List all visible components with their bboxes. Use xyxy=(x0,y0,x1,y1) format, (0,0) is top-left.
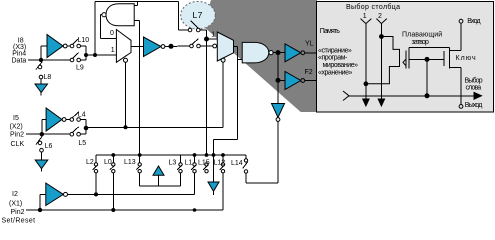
svg-text:Выход: Выход xyxy=(465,102,482,109)
svg-text:Вход: Вход xyxy=(467,18,480,25)
svg-text:L13: L13 xyxy=(124,159,136,166)
svg-text:I2: I2 xyxy=(12,191,18,198)
svg-text:затвор: затвор xyxy=(412,39,429,46)
svg-text:L9: L9 xyxy=(76,65,84,72)
svg-text:YL: YL xyxy=(305,41,314,48)
svg-text:Pin2: Pin2 xyxy=(11,209,25,216)
svg-text:CLK: CLK xyxy=(11,141,25,148)
svg-text:I5: I5 xyxy=(13,115,19,122)
svg-text:F2: F2 xyxy=(305,69,313,76)
svg-text:L12: L12 xyxy=(214,160,226,167)
svg-text:Память: Память xyxy=(320,28,340,35)
svg-text:L5: L5 xyxy=(78,140,86,147)
svg-text:0: 0 xyxy=(110,30,114,37)
svg-text:L14: L14 xyxy=(231,160,243,167)
svg-text:Выбор: Выбор xyxy=(465,76,483,84)
svg-text:(X2): (X2) xyxy=(10,123,23,130)
svg-text:Data: Data xyxy=(12,58,27,65)
svg-text:(X1): (X1) xyxy=(9,201,22,208)
svg-text:L1: L1 xyxy=(185,160,193,167)
svg-text:«програм-: «програм- xyxy=(318,55,348,62)
svg-text:L6: L6 xyxy=(45,143,53,150)
svg-text:Pin4: Pin4 xyxy=(12,51,26,58)
svg-text:L7: L7 xyxy=(193,10,203,20)
svg-text:«стирание»: «стирание» xyxy=(318,48,352,55)
svg-text:Pin2: Pin2 xyxy=(10,132,24,139)
svg-text:Ключ: Ключ xyxy=(456,55,477,62)
svg-text:L10: L10 xyxy=(78,37,90,44)
svg-text:L15: L15 xyxy=(198,160,210,167)
svg-text:1: 1 xyxy=(111,47,115,54)
svg-text:мирование»: мирование» xyxy=(323,62,359,69)
svg-text:L3: L3 xyxy=(169,160,177,167)
svg-text:слова: слова xyxy=(466,85,482,92)
svg-text:L2: L2 xyxy=(86,159,94,166)
svg-text:L0: L0 xyxy=(104,159,112,166)
svg-text:1: 1 xyxy=(211,32,215,39)
svg-text:Выбор столбца: Выбор столбца xyxy=(346,3,400,11)
svg-text:L4: L4 xyxy=(78,112,86,119)
svg-text:Плавающий: Плавающий xyxy=(402,31,442,39)
svg-text:L8: L8 xyxy=(44,74,52,81)
svg-text:«хранение»: «хранение» xyxy=(318,69,353,76)
svg-text:Set/Reset: Set/Reset xyxy=(2,217,36,224)
